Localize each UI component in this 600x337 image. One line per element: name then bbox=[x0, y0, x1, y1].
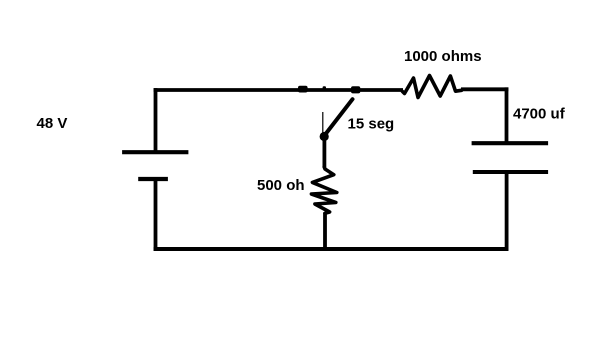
svg-text:48 V: 48 V bbox=[37, 115, 68, 132]
wire: resistor R2 down to bottom rail bbox=[323, 213, 327, 251]
svg-text:500 oh: 500 oh bbox=[257, 177, 305, 194]
svg-text:15 seg: 15 seg bbox=[348, 115, 395, 132]
switch S1 blade (open arm) bbox=[325, 99, 353, 135]
svg-text:4700 uf: 4700 uf bbox=[513, 106, 566, 123]
wire: top rail left segment (battery + to switch/resistor) bbox=[154, 88, 403, 92]
battery B1 long plate (positive) bbox=[122, 150, 188, 154]
switch S1 thin guide line bbox=[322, 112, 324, 133]
wire: bottom rail bbox=[154, 247, 509, 251]
resistor R2 zigzag body (500 oh, vertical) bbox=[311, 167, 336, 213]
switch S1 pivot junction dot bbox=[320, 132, 329, 141]
wire: top rail right segment (resistor to top-right corner) bbox=[461, 87, 508, 91]
wire: left vertical upper (top rail down to battery) bbox=[154, 88, 158, 152]
wire: switch pivot down to resistor R2 bbox=[322, 138, 326, 168]
capacitor C1 bottom plate bbox=[473, 170, 548, 174]
switch S1 terminal node (left square dot on top rail) bbox=[298, 86, 308, 93]
wire: right vertical upper (top rail down to capacitor) bbox=[505, 87, 509, 143]
switch S1 terminal node (right square dot on top rail) bbox=[351, 86, 360, 93]
wire: left vertical lower (battery - down to bottom rail) bbox=[154, 179, 158, 251]
battery B1 short plate (negative) bbox=[138, 177, 168, 181]
resistor R1 zigzag body (1000 ohms, horizontal) bbox=[403, 76, 462, 98]
svg-text:1000 ohms: 1000 ohms bbox=[404, 48, 482, 65]
switch S1 tiny contact nub on top rail bbox=[323, 86, 326, 90]
capacitor C1 top plate bbox=[472, 141, 548, 145]
wire: right vertical lower (capacitor down to bottom rail) bbox=[505, 172, 509, 251]
